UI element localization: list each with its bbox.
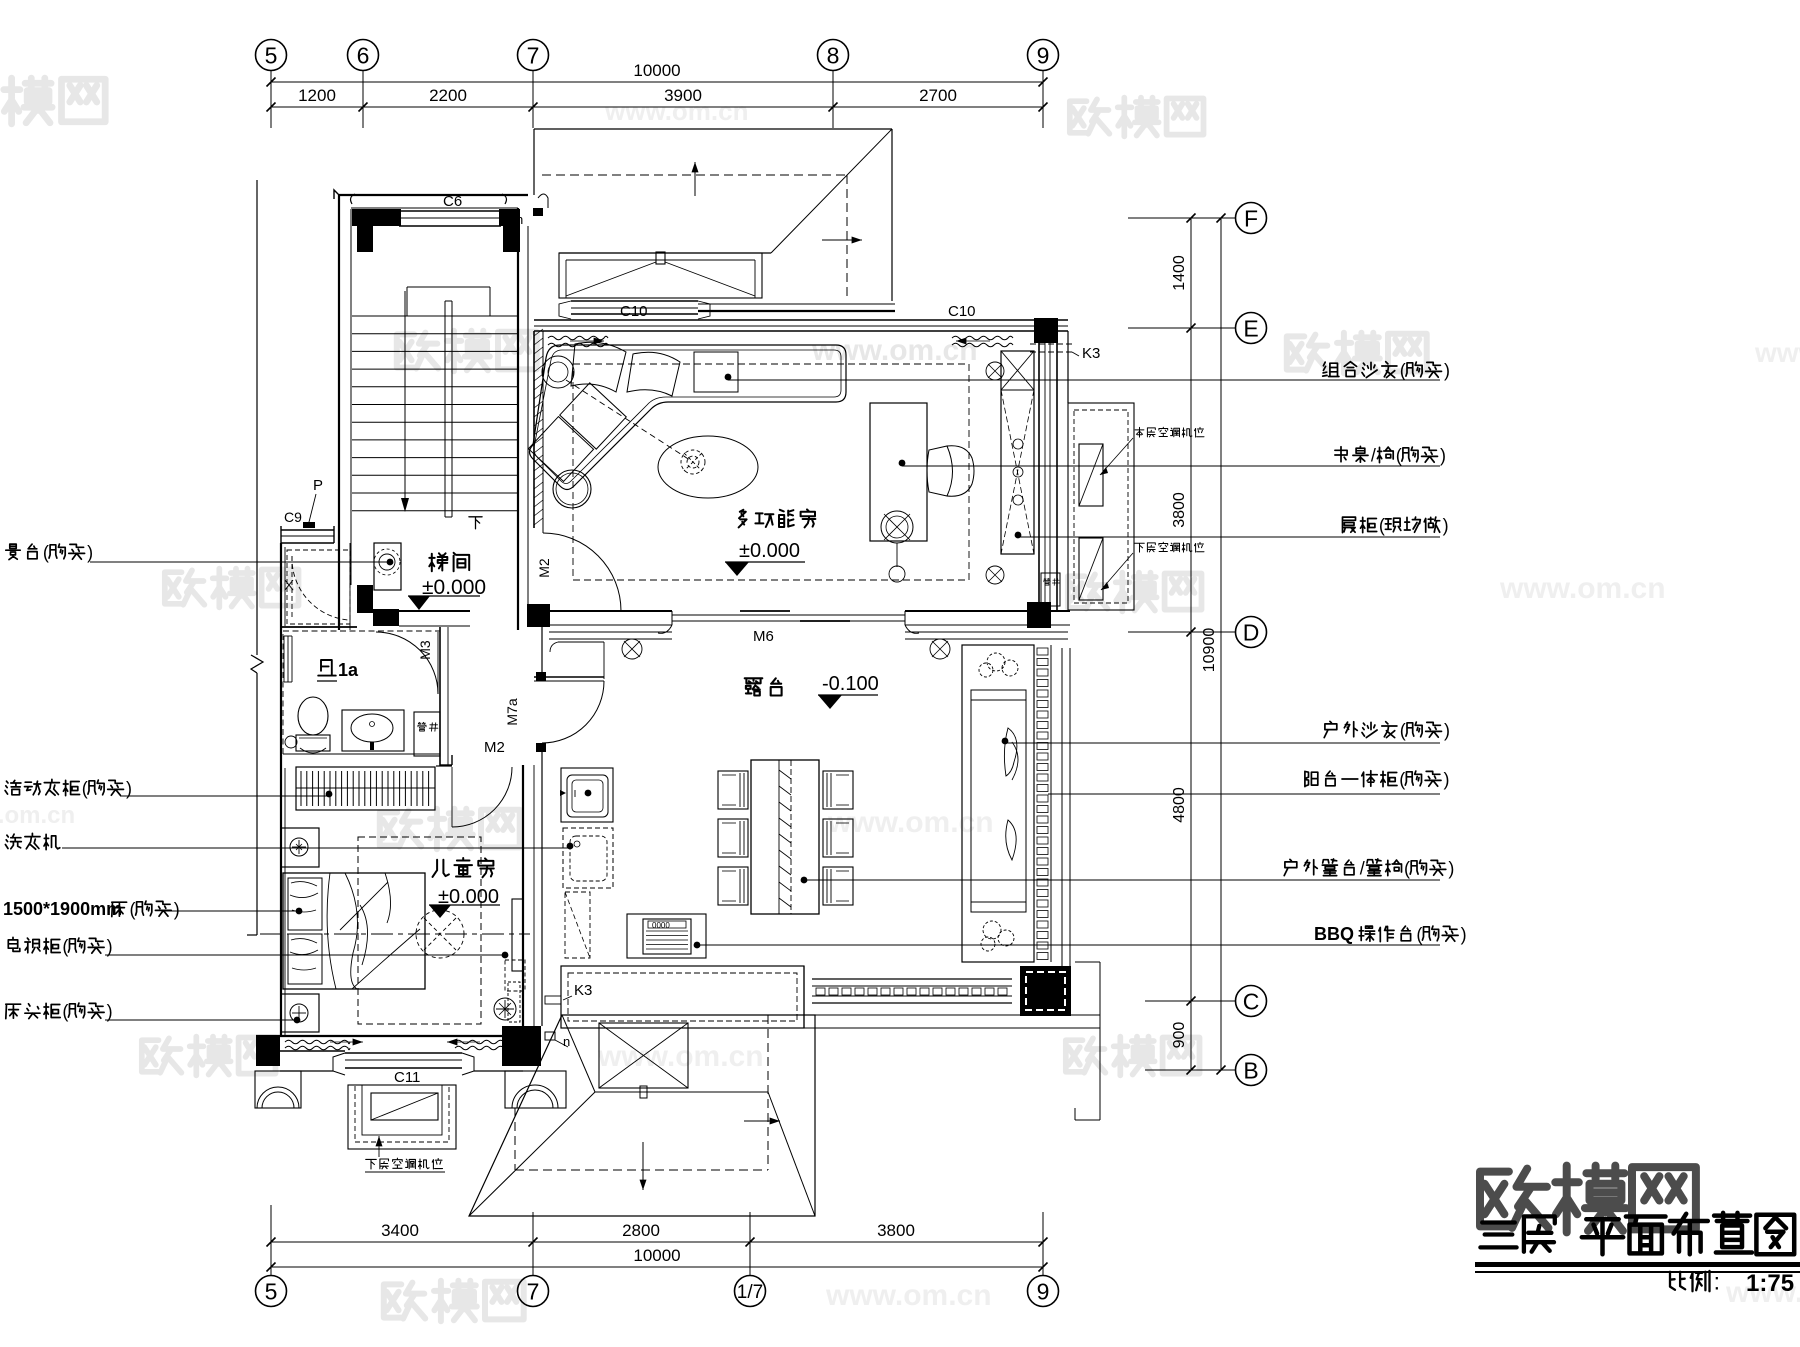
- insulation multi nw: [548, 336, 608, 340]
- stair landing outline: [407, 286, 490, 288]
- ceiling fan multi: [681, 450, 705, 474]
- right grid stubs: [1128, 217, 1236, 219]
- svg-text:5: 5: [265, 42, 278, 68]
- svg-text:1400: 1400: [1171, 255, 1188, 291]
- grid bubble 9 top: [1028, 40, 1059, 71]
- plant circles dashed top: [987, 653, 1005, 671]
- svg-text:BBQ: BBQ: [1314, 924, 1354, 944]
- svg-text:-0.100: -0.100: [822, 673, 879, 695]
- svg-text:): ): [1461, 924, 1467, 944]
- grid bubble B: [1236, 1055, 1267, 1086]
- svg-text:F: F: [1244, 205, 1258, 231]
- svg-text:E: E: [1243, 315, 1258, 341]
- C10 window band right: [698, 303, 895, 305]
- stair C6 window: [399, 210, 501, 212]
- svg-text:900: 900: [1171, 1022, 1188, 1049]
- bathroom dashed fixtures line: [283, 753, 440, 755]
- planter south: [561, 966, 804, 1028]
- svg-text:C6: C6: [443, 193, 462, 210]
- TV cabinet: [512, 899, 523, 971]
- svg-text:): ): [174, 899, 180, 919]
- svg-text:2800: 2800: [622, 1221, 660, 1240]
- svg-text:www.om.cn: www.om.cn: [597, 1040, 764, 1073]
- svg-text:C11: C11: [394, 1069, 420, 1086]
- label wardrobe: [5, 780, 21, 794]
- svg-text:1a: 1a: [338, 660, 359, 680]
- svg-text:(: (: [1400, 720, 1406, 740]
- oval rug: [658, 436, 758, 498]
- watermark om logo bottom center: [384, 1283, 425, 1319]
- svg-text:5: 5: [265, 1278, 278, 1304]
- bottom dimension line 10000: [271, 1266, 1043, 1268]
- K3 top right: [1030, 343, 1072, 345]
- grid bubble 1/7 bottom: [735, 1276, 766, 1307]
- ceiling fans south wall: [622, 639, 642, 659]
- right overall dimension line 10900: [1220, 218, 1222, 1070]
- terrace south railing: [812, 978, 1012, 980]
- M2 door multi: [542, 528, 544, 533]
- svg-text:(: (: [43, 542, 49, 562]
- bathroom label: [318, 660, 336, 676]
- svg-text:): ): [1443, 769, 1449, 789]
- svg-text:): ): [1444, 720, 1450, 740]
- stair down arrow: [404, 291, 406, 498]
- grid bubble 5 bottom: [256, 1276, 287, 1307]
- terrace label: [745, 678, 763, 695]
- wardrobe slats: [296, 767, 435, 810]
- svg-text:6: 6: [357, 42, 370, 68]
- top roof arrows: [694, 162, 696, 196]
- sofa arm chair: [542, 356, 574, 388]
- top dimension line 10000: [271, 81, 1043, 83]
- title underline: [1475, 1262, 1800, 1267]
- svg-text:K3: K3: [574, 982, 592, 999]
- svg-text:(: (: [129, 899, 135, 919]
- tall dashed cab: [565, 892, 590, 958]
- watermark om logo mid-right: [1068, 574, 1108, 608]
- top roof lower canopy: [559, 253, 762, 298]
- watermark om logo bottom-left edge: [142, 1038, 182, 1072]
- pipe shaft bathroom: [414, 712, 440, 756]
- C9 window: [281, 529, 334, 531]
- childrens south wall: [256, 1036, 280, 1066]
- svg-text:n: n: [516, 212, 523, 227]
- svg-text:10000: 10000: [633, 61, 680, 80]
- svg-text:(: (: [1399, 769, 1405, 789]
- bottom roof skylight: [599, 1023, 688, 1088]
- svg-text::: :: [1714, 1269, 1720, 1295]
- wardrobe leader dot: [326, 791, 333, 798]
- dining chairs right: [823, 771, 853, 809]
- svg-text:): ): [107, 1001, 113, 1021]
- grid bubble F: [1236, 203, 1267, 234]
- svg-text:0000: 0000: [652, 921, 670, 930]
- bottom dimension line segments: [271, 1241, 1043, 1243]
- svg-text:): ): [87, 542, 93, 562]
- svg-text:8: 8: [827, 42, 840, 68]
- label outdoor sofa: [1324, 721, 1337, 737]
- watermark om logo lower right: [1066, 1038, 1106, 1072]
- svg-text:10900: 10900: [1201, 628, 1218, 673]
- svg-text:): ): [126, 778, 132, 798]
- ne corner vertical: [1067, 331, 1069, 403]
- svg-text:(: (: [62, 1001, 68, 1021]
- bathroom dashed boundary: [283, 631, 440, 754]
- desk: [870, 403, 927, 541]
- fan symbols right wall: [986, 362, 1004, 380]
- display cabinet: [1001, 351, 1034, 554]
- AC labels right: [1135, 427, 1144, 437]
- multi west wall hatched: [533, 331, 535, 528]
- svg-text:M3: M3: [417, 640, 433, 660]
- watermark om logo mid-left: [165, 570, 205, 604]
- sofa cushions: [571, 342, 626, 392]
- watermark om logo row2 right: [1287, 335, 1328, 371]
- svg-text:M2: M2: [536, 558, 552, 578]
- bottom roof hips: [469, 1092, 595, 1216]
- svg-text:C9: C9: [284, 509, 302, 525]
- right AC platform: [1068, 403, 1134, 610]
- M7a door terrace: [534, 676, 604, 678]
- svg-text:(: (: [1404, 858, 1410, 878]
- grid line stubs top: [270, 71, 272, 129]
- svg-text:C: C: [1243, 988, 1260, 1014]
- bathroom sink: [342, 710, 404, 751]
- decorative column bases bottom: [255, 1071, 301, 1108]
- multi north wall: [534, 319, 1068, 321]
- stair top black columns: [352, 209, 401, 226]
- svg-text:): ): [1443, 515, 1449, 535]
- svg-text:): ): [107, 936, 113, 956]
- svg-text:4800: 4800: [1171, 787, 1188, 823]
- svg-text:www.om.cn: www.om.cn: [825, 1279, 992, 1312]
- small n-bracket top: [538, 194, 548, 208]
- bottom roof dashed: [767, 1015, 769, 1170]
- svg-text:/: /: [1360, 858, 1365, 878]
- grid bubble 7 bottom: [518, 1276, 549, 1307]
- dashed diagonal sofa-rug: [566, 380, 693, 462]
- bottom roof outline: [469, 1015, 815, 1216]
- grid line stubs bottom: [270, 1212, 272, 1276]
- stair treads: [352, 315, 518, 317]
- svg-text:1200: 1200: [298, 86, 336, 105]
- trims below south wall: [549, 631, 672, 633]
- slab edge lines east: [803, 966, 805, 1028]
- stair bottom black wall: [357, 585, 373, 613]
- bed leader dot: [296, 908, 303, 915]
- svg-text:): ): [1440, 445, 1446, 465]
- multi south wall: [549, 610, 672, 612]
- dining table: [751, 760, 819, 914]
- svg-text:3800: 3800: [1171, 492, 1188, 528]
- svg-text:B: B: [1243, 1057, 1258, 1083]
- black column multi se: [1027, 602, 1051, 628]
- M6 sliding door: [672, 614, 905, 616]
- tijian room label: [429, 553, 447, 571]
- desk chair: [927, 446, 953, 496]
- top roof outline: [534, 128, 892, 130]
- svg-text:2200: 2200: [429, 86, 467, 105]
- grid bubble 7 top: [518, 40, 549, 71]
- grid bubble 8 top: [818, 40, 849, 71]
- top roof dashed: [542, 174, 847, 176]
- svg-text:3900: 3900: [664, 86, 702, 105]
- svg-text:±0.000: ±0.000: [739, 540, 800, 562]
- svg-text:w.om.cn: w.om.cn: [0, 802, 75, 829]
- svg-text:M2: M2: [484, 739, 505, 756]
- watermark om logo top-right small: [1070, 99, 1110, 133]
- title sanCeng pingmian: [1480, 1223, 1516, 1248]
- washer dashed: [563, 828, 613, 888]
- watermark om logo center (childrens room): [380, 811, 421, 847]
- childrens east wall: [522, 765, 524, 1036]
- plants in cabinet: [1004, 728, 1017, 776]
- label desk: [1335, 447, 1347, 462]
- bottom roof arrows: [642, 1142, 644, 1190]
- label balcony cabinet: [1305, 771, 1318, 786]
- childrens room label: [433, 860, 449, 877]
- grid bubble 9 bottom: [1028, 1276, 1059, 1307]
- stair down label: [469, 517, 482, 529]
- lower AC platform: [348, 1085, 456, 1149]
- chain strip: [1033, 645, 1035, 962]
- svg-text:D: D: [1243, 619, 1260, 645]
- M2 door childrens: [451, 767, 453, 827]
- grid bubble 6 top: [348, 40, 379, 71]
- label sofa: [1323, 362, 1339, 376]
- jingtai room: [280, 543, 282, 630]
- svg-text:10000: 10000: [633, 1246, 680, 1265]
- label nightstand: [6, 1004, 21, 1018]
- C10 window band left: [571, 300, 698, 302]
- black dashed column: [1020, 966, 1071, 1016]
- multi dashed boundary: [573, 364, 969, 580]
- svg-text:7: 7: [527, 42, 540, 68]
- grid bubble D: [1236, 617, 1267, 648]
- stair right wall: [517, 208, 519, 630]
- svg-text:M6: M6: [753, 628, 774, 645]
- svg-text:K3: K3: [1082, 345, 1100, 362]
- C11 window: [345, 1052, 462, 1054]
- label washer: [5, 834, 21, 849]
- bathroom east wall: [439, 627, 441, 766]
- bathroom west wall with louvre: [280, 630, 282, 768]
- top dimension line segments: [271, 106, 1043, 108]
- svg-text:2700: 2700: [919, 86, 957, 105]
- multi east wall: [1038, 343, 1040, 612]
- label outdoor dining: [1284, 859, 1297, 875]
- nightstand 1: [281, 828, 319, 867]
- right dimension segment line: [1190, 218, 1192, 1070]
- instrument: [881, 511, 913, 543]
- svg-text:7: 7: [527, 1278, 540, 1304]
- stair stringer: [444, 301, 446, 517]
- logo OMU: [1480, 1169, 1548, 1228]
- jingtai-bathroom divider wall: [281, 626, 357, 628]
- ceiling fan childrens: [416, 910, 464, 958]
- svg-text:C10: C10: [948, 303, 976, 320]
- terrace sink unit: [561, 768, 613, 822]
- jingtai door dashed arc: [292, 556, 348, 620]
- tijian south wall: [399, 610, 470, 612]
- bed: [283, 873, 425, 989]
- terrace east outer wall: [1061, 648, 1063, 990]
- svg-text:(: (: [1400, 360, 1406, 380]
- stair outer walls: [338, 195, 340, 630]
- multi room label: [739, 510, 747, 528]
- dining chairs left: [718, 771, 748, 809]
- svg-text:9: 9: [1037, 42, 1050, 68]
- label display: [1343, 517, 1356, 533]
- K3 bracket childrens: [494, 998, 516, 1020]
- svg-text:www.om.cn: www.om.cn: [1499, 572, 1666, 605]
- svg-text:www.om.cn: www.om.cn: [827, 806, 994, 839]
- svg-text:): ): [1444, 360, 1450, 380]
- scale label: [1670, 1272, 1685, 1290]
- left boundary line with break: [256, 180, 258, 655]
- jingtai planter box: [374, 543, 401, 590]
- svg-text:/: /: [1371, 445, 1376, 465]
- BBQ: [627, 914, 706, 958]
- pipe shaft multi: [1041, 573, 1060, 606]
- bed centerline: [260, 933, 530, 935]
- svg-text:M7a: M7a: [504, 698, 520, 725]
- M3 door: [376, 632, 438, 694]
- svg-text:P: P: [313, 477, 323, 494]
- svg-text:): ): [1448, 858, 1454, 878]
- watermark om logo row2 left: [397, 333, 438, 369]
- svg-text:C10: C10: [620, 303, 648, 320]
- label tv: [8, 937, 19, 951]
- svg-text:1500*1900mm: 1500*1900mm: [3, 899, 122, 919]
- svg-text:(: (: [82, 778, 88, 798]
- svg-text:(: (: [1396, 445, 1402, 465]
- svg-text:3800: 3800: [877, 1221, 915, 1240]
- grid bubble 5 top: [256, 40, 287, 71]
- svg-text:1/7: 1/7: [737, 1282, 763, 1303]
- grid bubble C: [1236, 986, 1267, 1017]
- label jingtai: [6, 544, 20, 560]
- svg-text:(: (: [62, 936, 68, 956]
- svg-text:(: (: [1379, 515, 1385, 535]
- lower AC label: [366, 1159, 377, 1169]
- grid bubble E: [1236, 313, 1267, 344]
- toilet: [298, 697, 328, 735]
- svg-text:www: www: [1754, 337, 1800, 368]
- insulation childrens south: [285, 1040, 350, 1044]
- svg-text:1:75: 1:75: [1746, 1270, 1794, 1297]
- outdoor cabinet east: [962, 645, 1034, 962]
- svg-text:9: 9: [1037, 1278, 1050, 1304]
- svg-text:(: (: [1416, 924, 1422, 944]
- childrens rug dashed: [358, 837, 481, 1024]
- sofa L-shape: [530, 345, 847, 490]
- nightstand 2: [281, 994, 319, 1032]
- svg-text:3400: 3400: [381, 1221, 419, 1240]
- black column multi ne: [1034, 318, 1058, 343]
- childrens west wall: [280, 768, 282, 1036]
- display leader dot: [1015, 532, 1022, 539]
- round side table: [553, 470, 591, 508]
